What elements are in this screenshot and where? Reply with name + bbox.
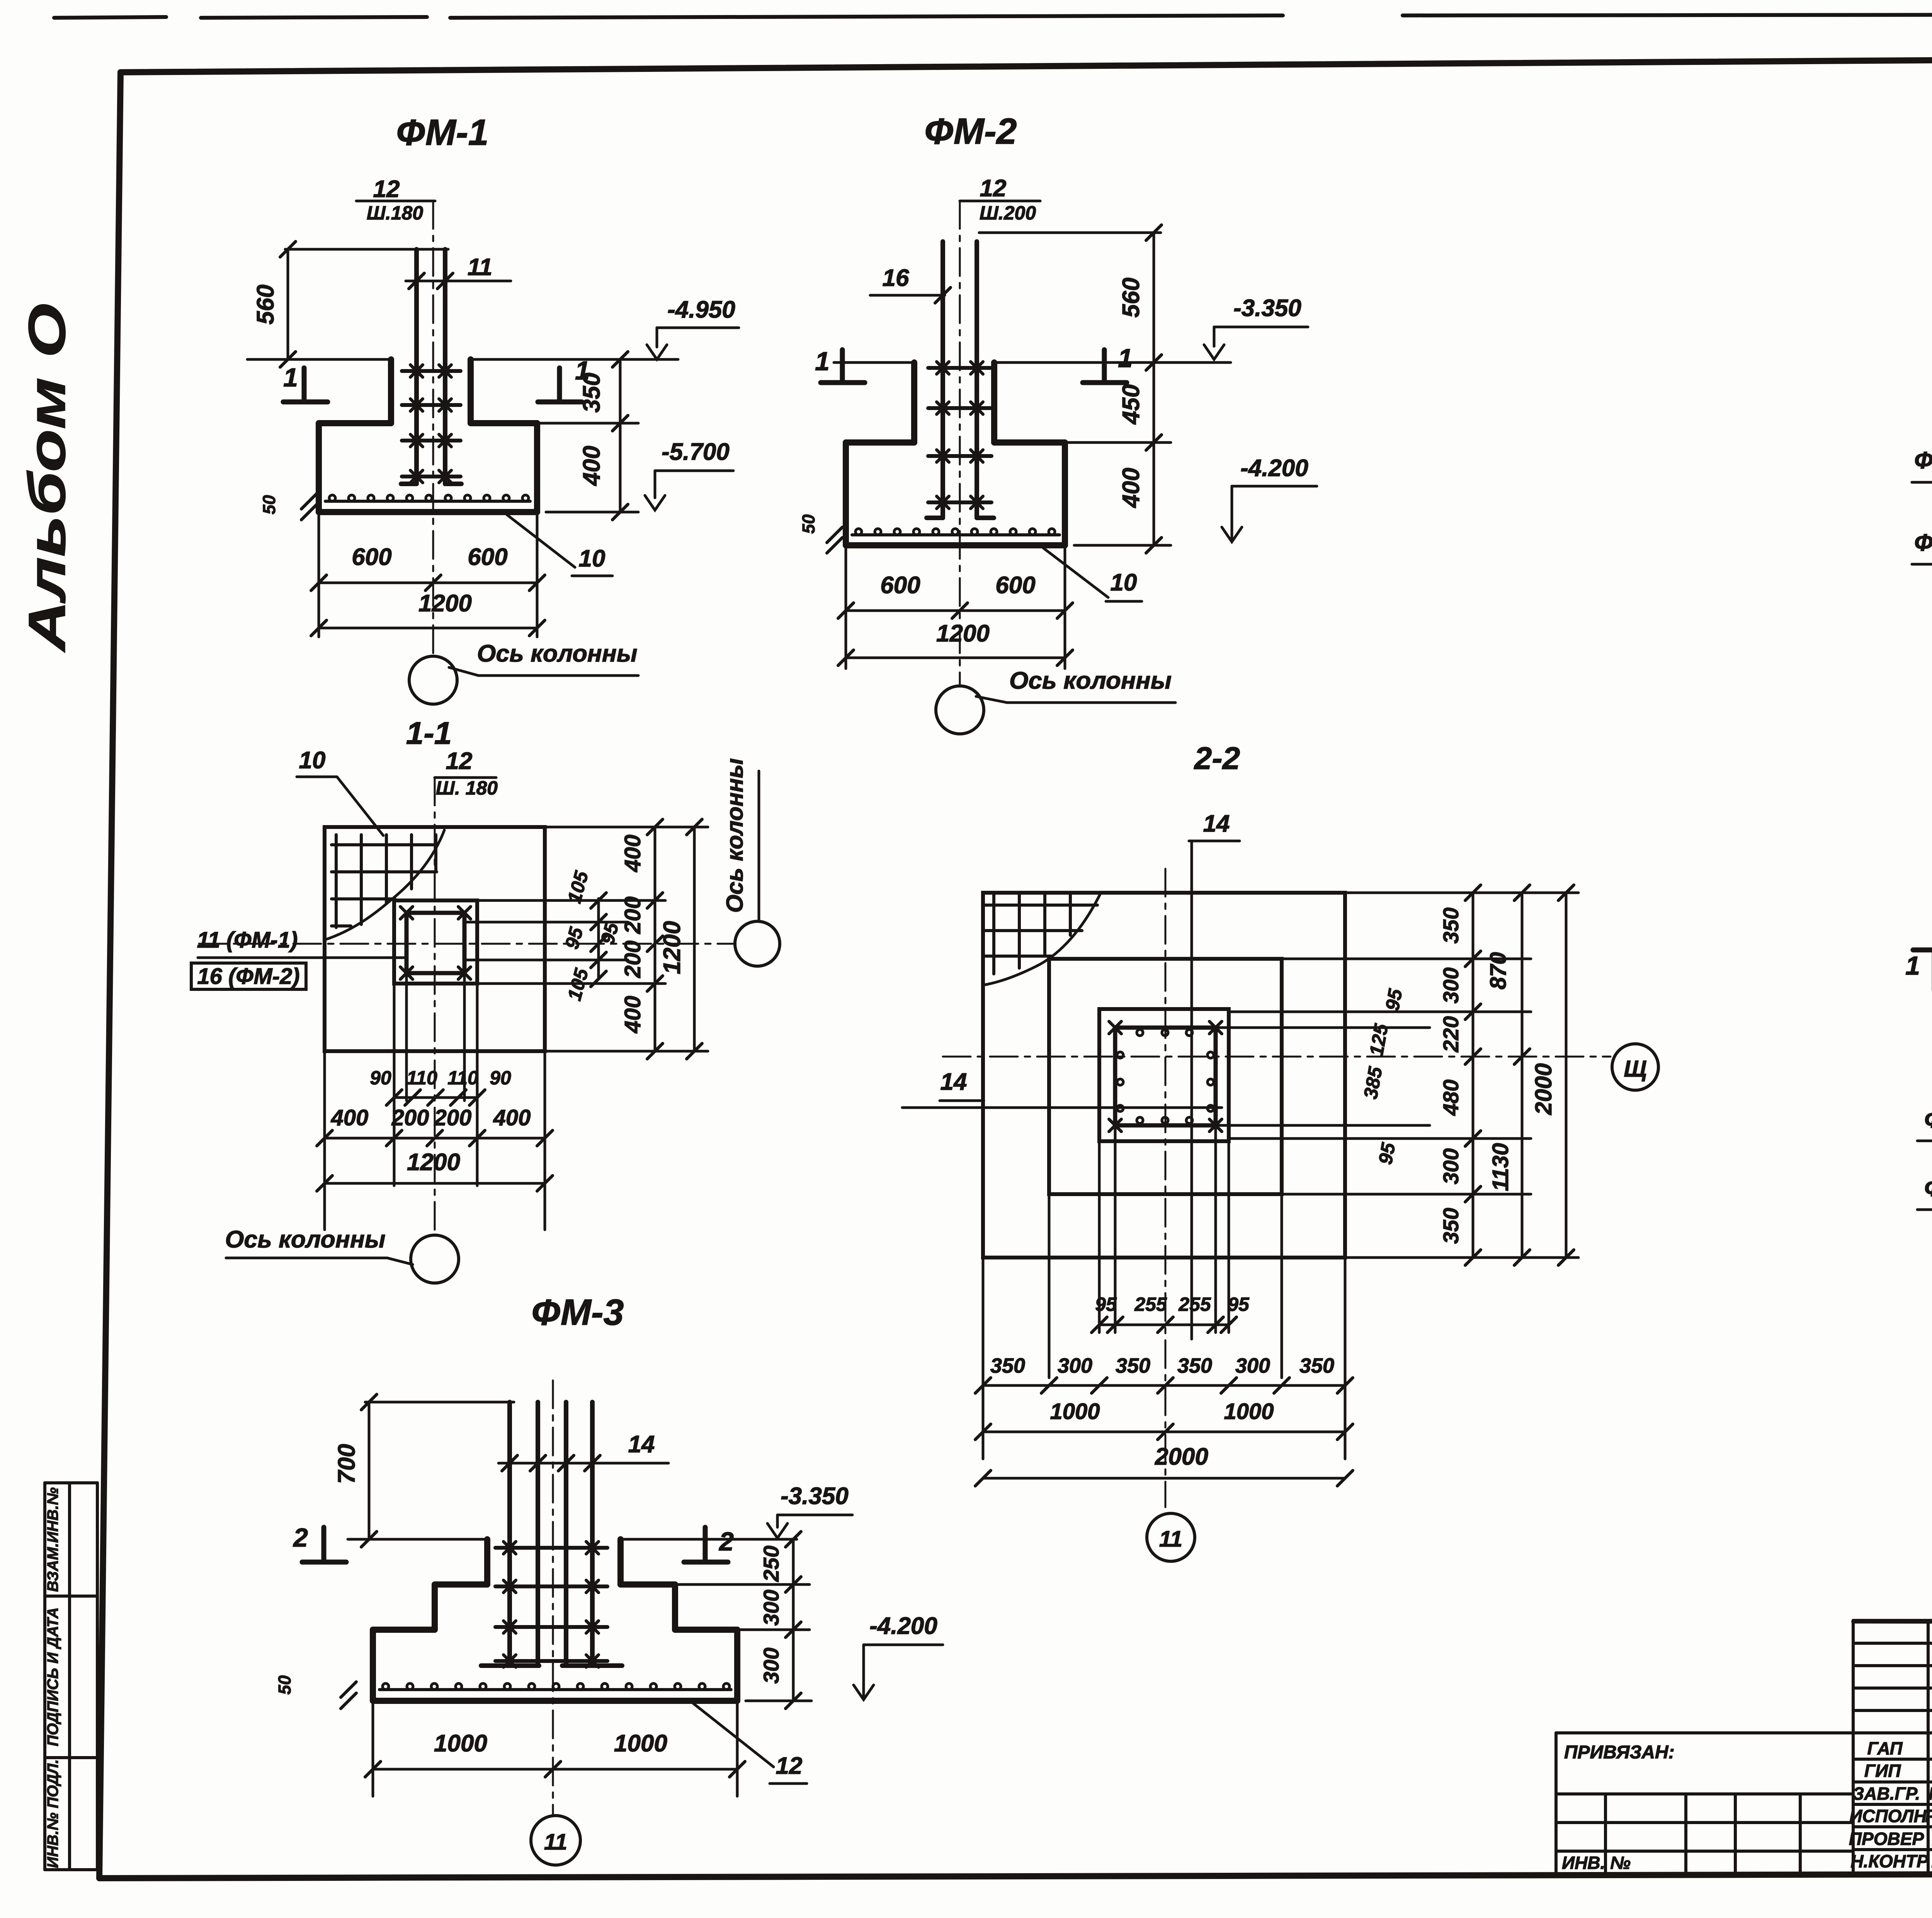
svg-text:16: 16 xyxy=(883,265,909,291)
FM-2 foundation outline xyxy=(911,362,917,442)
svg-text:50: 50 xyxy=(799,514,818,534)
FM-2 column rebar bars xyxy=(940,242,945,518)
FM-1 ground line xyxy=(247,358,391,361)
left margin stamp strip xyxy=(45,1481,97,1484)
FM-3 dims 1000 1000 xyxy=(372,1701,374,1796)
svg-text:РОНДАРЕВА: РОНДАРЕВА xyxy=(1925,1806,1932,1826)
FM-2 top extension line xyxy=(979,231,1161,234)
FM-3 dim 700 xyxy=(368,1402,371,1539)
plan 2-2 axis bubble 11 xyxy=(1147,1513,1195,1561)
svg-text:ПРОВЕР: ПРОВЕР xyxy=(1849,1829,1924,1849)
svg-text:11: 11 xyxy=(1159,1527,1182,1552)
FM-3 top extension line xyxy=(365,1401,514,1404)
svg-text:90: 90 xyxy=(370,1067,391,1089)
svg-text:350: 350 xyxy=(1177,1354,1212,1377)
FM-3 bottom mesh 12 xyxy=(379,1688,731,1691)
svg-text:1200: 1200 xyxy=(418,590,472,617)
svg-text:12: 12 xyxy=(776,1753,803,1779)
svg-text:Н.КОНТР: Н.КОНТР xyxy=(1850,1851,1929,1871)
svg-text:300: 300 xyxy=(1439,1148,1463,1184)
plan 2-2 dim 2000 vertical xyxy=(1565,893,1568,1258)
svg-text:1: 1 xyxy=(815,347,830,376)
svg-text:1200: 1200 xyxy=(407,1149,460,1176)
plan 1-1 axis bubble right xyxy=(735,921,780,966)
svg-text:ПРИВЯЗАН:: ПРИВЯЗАН: xyxy=(1564,1742,1675,1763)
svg-text:560: 560 xyxy=(1118,277,1145,317)
plan 1-1 column rebar cage xyxy=(406,913,464,973)
svg-text:12: 12 xyxy=(373,176,400,203)
svg-text:12: 12 xyxy=(980,175,1007,202)
svg-text:350: 350 xyxy=(1439,1208,1463,1244)
svg-text:ИНВ.№ ПОДЛ.: ИНВ.№ ПОДЛ. xyxy=(44,1759,61,1868)
plan 1-1 pedestal outline xyxy=(394,900,477,984)
svg-text:1130: 1130 xyxy=(1488,1143,1513,1191)
svg-text:-3.350: -3.350 xyxy=(1233,295,1301,322)
svg-text:400: 400 xyxy=(331,1105,369,1130)
svg-text:600: 600 xyxy=(468,544,507,570)
plan 2-2 pedestal outline xyxy=(1099,1009,1229,1141)
svg-text:255: 255 xyxy=(1178,1293,1211,1315)
svg-text:400: 400 xyxy=(620,996,645,1034)
svg-text:Щ: Щ xyxy=(1624,1056,1646,1082)
title block signature table xyxy=(1852,1620,1855,1874)
scan sheet top edge line xyxy=(54,17,166,18)
svg-text:-4.950: -4.950 xyxy=(667,296,735,323)
svg-text:2: 2 xyxy=(293,1523,308,1552)
plan 1-1 footing outline xyxy=(325,827,545,1051)
svg-text:300: 300 xyxy=(1235,1354,1270,1377)
svg-text:50: 50 xyxy=(275,1675,294,1695)
FM-1 dim 1200 xyxy=(319,627,537,630)
svg-text:Альбом О: Альбом О xyxy=(18,303,76,653)
svg-text:1-1: 1-1 xyxy=(406,716,452,751)
FM-2 dim 400 xyxy=(1153,442,1155,545)
svg-text:300: 300 xyxy=(1058,1354,1092,1377)
plan 2-2 mesh hatch xyxy=(992,895,995,974)
svg-text:ФМ-4: ФМ-4 xyxy=(1914,447,1932,474)
svg-text:95: 95 xyxy=(1381,987,1406,1013)
FM-3 column rebar bars xyxy=(507,1402,512,1665)
title block attach table left xyxy=(1556,1731,1853,1734)
FM-1 section mark 1 right xyxy=(557,368,562,401)
svg-text:870: 870 xyxy=(1486,952,1511,990)
svg-text:600: 600 xyxy=(995,572,1035,599)
plan 1-1 lower extension lines xyxy=(393,984,396,1186)
svg-text:90: 90 xyxy=(490,1067,511,1089)
svg-text:95: 95 xyxy=(561,924,587,951)
FM-3 leader 12 xyxy=(692,1703,774,1767)
plan 2-2 footing outline xyxy=(983,893,1345,1258)
svg-text:250: 250 xyxy=(759,1545,783,1582)
svg-text:95: 95 xyxy=(1228,1293,1250,1315)
svg-text:14: 14 xyxy=(940,1069,967,1095)
FM-2 dim 450 xyxy=(1153,362,1155,442)
svg-text:ФМ-4: ФМ-4 xyxy=(1924,1175,1932,1202)
svg-text:400: 400 xyxy=(1118,468,1145,508)
svg-text:1000: 1000 xyxy=(434,1730,487,1757)
svg-text:ИНВ. №: ИНВ. № xyxy=(1562,1853,1631,1873)
plan 1-1 mesh hatch xyxy=(335,835,338,928)
svg-text:ВЗАМ.ИНВ.№: ВЗАМ.ИНВ.№ xyxy=(44,1487,61,1592)
svg-text:ГАП: ГАП xyxy=(1867,1738,1903,1758)
svg-text:95: 95 xyxy=(1374,1141,1400,1166)
svg-text:14: 14 xyxy=(628,1431,655,1458)
FM-1 top extension line xyxy=(285,248,448,251)
svg-text:11 (ФМ-1): 11 (ФМ-1) xyxy=(197,928,298,953)
FM-2 dim 560 xyxy=(1153,233,1155,362)
FM-1 leader 10 xyxy=(507,515,575,567)
plan 2-2 centerlines xyxy=(943,1056,1611,1058)
svg-text:ФМ-2: ФМ-2 xyxy=(925,111,1017,152)
svg-text:200: 200 xyxy=(434,1105,472,1130)
FM-1 dim 400 xyxy=(619,423,622,512)
svg-text:Ось колонны: Ось колонны xyxy=(722,758,748,913)
svg-text:1: 1 xyxy=(283,363,298,392)
svg-text:2000: 2000 xyxy=(1531,1063,1556,1115)
svg-text:1200: 1200 xyxy=(659,921,685,974)
svg-text:ФМ-1: ФМ-1 xyxy=(396,112,489,153)
svg-text:300: 300 xyxy=(759,1647,783,1683)
title block top line xyxy=(1853,1622,1932,1623)
svg-text:300: 300 xyxy=(759,1590,783,1625)
svg-text:ФМ-5: ФМ-5 xyxy=(1914,529,1932,556)
FM-3 dims 250 300 300 xyxy=(792,1539,795,1701)
svg-text:ГИП: ГИП xyxy=(1864,1761,1901,1781)
plan 2-2 dims 350 300 220 480 300 350 xyxy=(1472,893,1475,1258)
FM-2 bottom mesh xyxy=(852,533,1060,536)
svg-text:1000: 1000 xyxy=(1224,1399,1274,1424)
svg-text:Ш. 180: Ш. 180 xyxy=(436,777,498,799)
svg-text:480: 480 xyxy=(1439,1079,1463,1116)
FM-3 stirrups xyxy=(495,1546,607,1550)
svg-text:-3.350: -3.350 xyxy=(781,1483,849,1510)
plan 1-1 dim 1200 vertical xyxy=(693,827,696,1051)
svg-text:14: 14 xyxy=(1203,810,1230,837)
svg-text:200: 200 xyxy=(391,1105,429,1130)
svg-text:385: 385 xyxy=(1359,1065,1386,1101)
svg-text:560: 560 xyxy=(252,284,279,324)
svg-text:200: 200 xyxy=(620,941,645,979)
FM-2 dim 1200 xyxy=(846,657,1065,659)
plan 2-2 lower extension lines xyxy=(982,1258,985,1459)
plan 1-1 dims 400 200 200 400 xyxy=(654,827,656,1051)
svg-text:2-2: 2-2 xyxy=(1194,741,1240,776)
svg-text:16 (ФМ-2): 16 (ФМ-2) xyxy=(197,964,299,989)
sheet frame bottom xyxy=(99,1873,1932,1878)
svg-text:110: 110 xyxy=(447,1067,478,1089)
svg-text:105: 105 xyxy=(563,966,593,1003)
FM-1 dim 350 xyxy=(619,359,622,423)
plan 2-2 dims 870 1130 xyxy=(1521,893,1524,1258)
svg-text:110: 110 xyxy=(406,1067,437,1089)
svg-text:600: 600 xyxy=(880,572,920,599)
svg-text:11: 11 xyxy=(544,1830,567,1855)
svg-text:255: 255 xyxy=(1134,1293,1167,1315)
svg-text:2000: 2000 xyxy=(1155,1443,1208,1470)
FM-3 ground line xyxy=(348,1538,487,1541)
FM-2 column centerline xyxy=(959,201,961,685)
FM-1 column centerline xyxy=(432,201,434,656)
plan 1-1 centerlines xyxy=(434,778,436,1235)
svg-text:400: 400 xyxy=(578,446,605,486)
FM-1 column axis bubble xyxy=(409,656,457,704)
svg-text:10: 10 xyxy=(579,545,605,572)
svg-text:10: 10 xyxy=(299,747,326,774)
svg-text:Ось колонны: Ось колонны xyxy=(1009,667,1172,694)
svg-text:-4.200: -4.200 xyxy=(869,1613,937,1639)
svg-text:1200: 1200 xyxy=(936,620,990,647)
FM-2 dim 600+600 xyxy=(845,545,847,669)
plan 2-2 column rebar cage xyxy=(1115,1028,1216,1125)
FM-3 foundation outline xyxy=(484,1539,490,1584)
svg-text:1000: 1000 xyxy=(614,1730,667,1757)
svg-text:1: 1 xyxy=(1905,951,1920,980)
svg-text:600: 600 xyxy=(352,544,391,570)
svg-text:220: 220 xyxy=(1439,1016,1463,1052)
svg-text:300: 300 xyxy=(1439,967,1463,1003)
svg-text:350: 350 xyxy=(1439,907,1463,943)
svg-text:350: 350 xyxy=(1116,1354,1150,1377)
svg-text:1: 1 xyxy=(1118,344,1133,373)
svg-text:2: 2 xyxy=(718,1527,734,1556)
plan 2-2 axis bubble Shch xyxy=(1612,1044,1658,1090)
svg-text:ФМ-3: ФМ-3 xyxy=(532,1292,624,1333)
FM-1 stirrups xyxy=(402,369,461,373)
svg-text:12: 12 xyxy=(446,748,473,774)
svg-text:350: 350 xyxy=(1299,1354,1334,1377)
svg-text:200: 200 xyxy=(620,897,645,934)
FM-1 bottom mesh 10 xyxy=(325,500,530,503)
FM-1 column rebar bars xyxy=(414,249,419,484)
FM-3 column centerline xyxy=(552,1380,554,1816)
svg-text:1000: 1000 xyxy=(1050,1399,1100,1424)
svg-text:-4.200: -4.200 xyxy=(1240,455,1308,482)
FM-1 dim 600+600 xyxy=(318,512,320,637)
FM-2 stirrups xyxy=(928,366,992,370)
svg-text:Ось колонны: Ось колонны xyxy=(225,1226,386,1253)
plan 2-2 middle step outline xyxy=(1049,959,1282,1194)
svg-text:95: 95 xyxy=(1095,1293,1117,1315)
plan 1-1 right extension lines xyxy=(545,826,708,829)
FM-2 ground line xyxy=(834,361,914,364)
svg-text:Ось колонны: Ось колонны xyxy=(477,640,638,667)
sheet frame left xyxy=(99,72,121,1878)
plan 1-1 axis bubble bottom xyxy=(411,1235,459,1283)
FM-1 dim 560 xyxy=(287,249,289,359)
svg-text:Ш.200: Ш.200 xyxy=(980,202,1036,224)
svg-text:-5.700: -5.700 xyxy=(662,439,730,465)
sheet frame top xyxy=(121,55,1932,72)
svg-text:МОРОЗОВА: МОРОЗОВА xyxy=(1929,1784,1932,1804)
FM-1 foundation outline xyxy=(388,359,394,423)
svg-text:450: 450 xyxy=(1118,384,1145,425)
svg-text:350: 350 xyxy=(990,1354,1025,1377)
svg-text:ПОДПИСЬ И ДАТА: ПОДПИСЬ И ДАТА xyxy=(44,1607,61,1746)
svg-text:ИСПОЛН: ИСПОЛН xyxy=(1849,1806,1927,1826)
FM-2 column axis bubble xyxy=(936,686,984,734)
svg-text:400: 400 xyxy=(493,1105,531,1130)
svg-text:ЗАВ.ГР.: ЗАВ.ГР. xyxy=(1853,1784,1920,1804)
svg-text:ФМ-5: ФМ-5 xyxy=(1924,1106,1932,1133)
svg-text:400: 400 xyxy=(620,835,645,873)
svg-text:50: 50 xyxy=(259,495,279,514)
svg-text:11: 11 xyxy=(468,254,492,281)
svg-text:Ш.180: Ш.180 xyxy=(367,202,423,224)
FM-3 axis bubble 11 xyxy=(531,1816,580,1865)
FM-2 leader 10 xyxy=(1043,548,1108,597)
plan 2-2 right extension lines xyxy=(1345,892,1578,894)
svg-text:10: 10 xyxy=(1111,569,1137,596)
svg-text:700: 700 xyxy=(333,1444,360,1484)
svg-text:350: 350 xyxy=(578,373,605,412)
